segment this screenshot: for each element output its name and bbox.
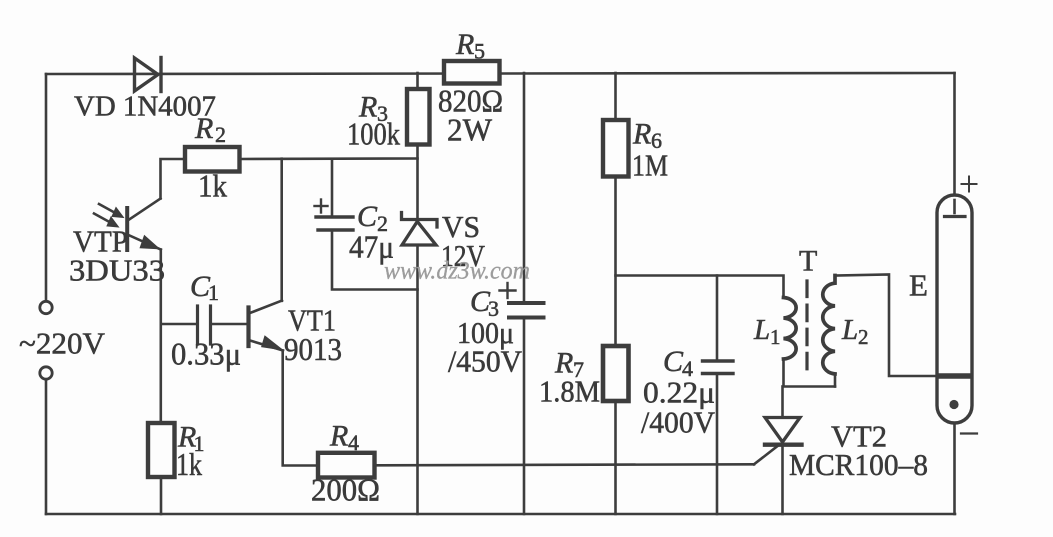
wire VT1 collector up — [280, 159, 283, 301]
wire VS down to bottom rail — [416, 245, 419, 514]
wire C1 right to VT1 base — [212, 323, 247, 326]
svg-text:200Ω: 200Ω — [311, 472, 380, 508]
capacitor C2 — [316, 217, 353, 230]
resistor R3 — [416, 73, 419, 89]
wire R4 right to SCR gate — [375, 464, 755, 465]
thyristor VT2 MCR100-8 — [781, 387, 784, 418]
inductor L1 — [784, 298, 797, 360]
svg-text:4: 4 — [348, 430, 359, 455]
capacitor C4 — [716, 276, 719, 361]
terminal upper circle — [40, 301, 52, 313]
wire L1 bottom to junction — [784, 359, 836, 387]
svg-text:100k: 100k — [347, 116, 400, 152]
wire top-right drop to lamp — [953, 73, 956, 213]
wire L2 top to lamp — [835, 275, 936, 377]
transformer core dashed — [805, 281, 808, 376]
svg-text:www.dz3w.com: www.dz3w.com — [384, 258, 530, 285]
terminal lower circle — [40, 367, 52, 379]
svg-text:R: R — [632, 118, 651, 151]
svg-text:MCR100–8: MCR100–8 — [789, 447, 928, 482]
svg-text:~220V: ~220V — [19, 326, 106, 361]
wire bottom rail — [46, 513, 955, 516]
lamp minus sign — [961, 432, 977, 434]
svg-text:/450V: /450V — [448, 344, 523, 379]
transistor VT1 9013 — [249, 301, 284, 351]
svg-text:L: L — [753, 314, 770, 346]
svg-text:5: 5 — [474, 39, 485, 64]
svg-text:0.33μ: 0.33μ — [171, 336, 241, 372]
resistor R7 — [603, 346, 629, 401]
capacitor C1 — [198, 306, 211, 344]
svg-text:L: L — [841, 314, 858, 346]
resistor R4 — [318, 453, 375, 478]
wire VTP emitter down — [160, 250, 163, 424]
lamp lower electrode bar — [940, 373, 970, 379]
diode VD 1N4007 — [135, 58, 162, 92]
svg-text:9013: 9013 — [284, 331, 342, 367]
wire C2 top stub — [331, 159, 334, 216]
resistor R5 — [444, 61, 500, 84]
wire R1 bottom — [160, 477, 163, 514]
wire node row to L1 top — [616, 276, 784, 298]
svg-text:1.8M: 1.8M — [539, 374, 600, 409]
svg-text:1k: 1k — [176, 446, 202, 482]
svg-text:T: T — [799, 245, 817, 278]
svg-text:/400V: /400V — [641, 405, 716, 440]
wire left rail upper — [45, 74, 48, 301]
wire C3 bottom — [523, 319, 526, 515]
svg-text:1M: 1M — [632, 148, 668, 183]
svg-text:E: E — [909, 268, 928, 303]
C2 plus sign — [315, 200, 328, 213]
svg-text:C: C — [663, 345, 684, 378]
wire VT1 emitter down to R4 — [283, 351, 318, 466]
svg-text:1k: 1k — [198, 168, 227, 204]
wire C1 left — [161, 323, 196, 326]
wire C2 bottom to VS line — [332, 231, 418, 290]
wire R7 bottom — [614, 401, 617, 514]
svg-text:R: R — [455, 28, 474, 61]
zener VS 12V — [402, 213, 438, 246]
wire R2 right to R3 node — [240, 157, 418, 160]
wire left rail lower — [45, 380, 48, 515]
wire lamp bottom — [953, 423, 956, 514]
svg-text:2W: 2W — [447, 112, 493, 148]
svg-text:R: R — [329, 420, 348, 453]
lamp top filament — [953, 200, 956, 213]
phototransistor VTP 3DU33 — [94, 199, 161, 251]
resistor R1 — [148, 423, 175, 477]
lamp plus sign — [962, 177, 977, 192]
lamp E tube — [937, 195, 972, 423]
wire R3 bottom to VS — [416, 145, 419, 219]
wire SCR cathode down — [781, 446, 784, 514]
svg-text:2: 2 — [858, 325, 869, 349]
wire C4 bottom — [716, 375, 719, 515]
SCR gate lead — [754, 445, 780, 465]
C3 plus sign — [500, 283, 516, 298]
resistor R2 — [161, 159, 186, 199]
capacitor C3 — [523, 73, 526, 303]
wire L2 bottom stub — [834, 374, 837, 387]
resistor R6 — [614, 73, 617, 120]
lamp lower dot — [949, 400, 958, 409]
inductor L2 — [823, 276, 835, 375]
svg-text:3DU33: 3DU33 — [69, 253, 165, 288]
svg-text:R: R — [194, 112, 213, 145]
svg-text:1: 1 — [770, 325, 781, 349]
wire top rail — [46, 73, 955, 74]
svg-text:1: 1 — [208, 280, 219, 305]
wire R6 bottom to node — [614, 177, 617, 347]
svg-text:2: 2 — [215, 122, 226, 147]
